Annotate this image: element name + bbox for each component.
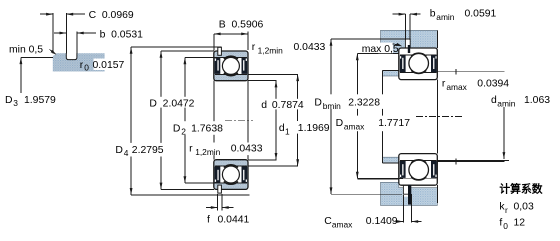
svg-text:4: 4: [124, 148, 129, 158]
svg-text:1.9579: 1.9579: [24, 95, 56, 106]
snap ring in groove (protrudes above OD): [218, 47, 222, 55]
svg-text:C 0.0969: C 0.0969: [89, 10, 134, 21]
raceway arcs above and below ball: [224, 56, 238, 59]
bearing outline (rings) filled steel blue: [214, 160, 248, 190]
right view - top half (mounted bearing): [357, 30, 504, 79]
snap ring in groove (protrudes above OD): [218, 185, 222, 193]
svg-text:0.1409: 0.1409: [366, 216, 398, 227]
dimension C: extension line right (groove left wall): [65, 13, 67, 53]
svg-text:amin: amin: [497, 98, 515, 108]
svg-text:2.2795: 2.2795: [132, 145, 164, 156]
svg-text:0.0591: 0.0591: [465, 9, 497, 20]
housing section block (stippled): [381, 30, 438, 53]
outer ring inner edge line: [215, 56, 247, 58]
dimension b_amin: extension lines to slot: [404, 14, 406, 40]
svg-text:D: D: [314, 98, 322, 109]
dimension C: extension line left (ring face): [52, 13, 54, 53]
cavity between rings: [215, 166, 247, 183]
dimension D_bmin: reference lines at slot bottom: [331, 38, 406, 40]
svg-text:2.3228: 2.3228: [348, 98, 380, 109]
svg-text:计算系数: 计算系数: [499, 181, 542, 195]
svg-text:1,2min: 1,2min: [195, 147, 220, 157]
slot outline: [403, 185, 409, 194]
svg-text:0.0157: 0.0157: [93, 60, 125, 71]
dimension b: extension line (groove right wall): [76, 32, 78, 54]
housing shoulder abutment line (D_amax level): [357, 52, 399, 54]
left seal right view: [400, 55, 406, 72]
label max 0,5 with leader: [378, 43, 393, 54]
label D2 1.7638 on white box: [171, 121, 226, 135]
outer ring inner edge: [400, 54, 437, 56]
dimension D_amax vertical line with arrows: [356, 53, 358, 178]
centerline of main view: [225, 119, 253, 121]
dimension b_amin arrows: [393, 13, 406, 15]
snap ring (black) in right view: [408, 185, 411, 205]
dimension f: extension lines from bottom snap ring: [217, 194, 219, 211]
shaft end face line: [382, 70, 384, 163]
dimension D_bmin vertical line with arrows: [330, 39, 332, 194]
dimension d1: reference lines (shoulder): [248, 73, 298, 75]
svg-text:0.7874: 0.7874: [272, 100, 304, 111]
dimension D: bottom reference line: [161, 188, 214, 190]
dimension D4: bottom reference line: [131, 194, 249, 196]
snap ring slot in housing (white): [403, 185, 409, 197]
svg-text:B 0.5906: B 0.5906: [219, 19, 264, 30]
dimension d_amin: vertical line with down arrow to shaft shoulder line: [503, 107, 505, 159]
svg-text:1.063: 1.063: [524, 95, 550, 106]
main view - top half of bearing section: [214, 47, 248, 80]
ball right view: [409, 54, 429, 74]
slot outline: [405, 39, 410, 48]
bearing side silhouette line right view: [436, 80, 438, 154]
label D_bmin 2.3228 on white box: [312, 94, 384, 109]
inner ring shoulder edge line: [215, 165, 247, 167]
svg-text:D: D: [115, 145, 123, 156]
raceway arcs right view: [411, 177, 426, 180]
ball: [222, 57, 239, 74]
cavity between rings: [215, 57, 247, 74]
raceway arcs above and below ball: [224, 181, 238, 184]
svg-text:r: r: [80, 60, 84, 71]
svg-text:r: r: [505, 205, 508, 215]
svg-text:0: 0: [84, 63, 89, 73]
inner ring shoulder edge line: [215, 73, 247, 75]
svg-text:max 0,5: max 0,5: [362, 44, 399, 55]
svg-text:D: D: [173, 123, 181, 134]
svg-text:1.7638: 1.7638: [191, 123, 223, 134]
dimension B: extension lines: [213, 34, 215, 51]
inner ring shoulder edge: [400, 72, 437, 74]
label D_amax 1.7717 on white box: [334, 116, 416, 132]
bearing outline right view (white): [399, 154, 438, 186]
svg-text:d: d: [279, 123, 285, 134]
housing outer corner edge line right view: [436, 30, 438, 48]
right seal right view: [431, 55, 437, 72]
svg-text:d: d: [491, 95, 497, 106]
svg-text:f: f: [499, 218, 502, 229]
svg-text:min 0,5: min 0,5: [9, 45, 43, 56]
dimension C_amax arrows: [396, 221, 404, 223]
right seal right view: [431, 161, 437, 178]
dimension D vertical line with arrows: [160, 51, 162, 189]
svg-text:1,2min: 1,2min: [258, 45, 283, 55]
dimension D2: top reference line: [185, 56, 216, 58]
main view - bottom half of bearing section (mirrored): [214, 160, 248, 193]
right view - bottom half (mounted bearing, mirrored): [357, 154, 504, 206]
svg-text:0.0433: 0.0433: [231, 144, 263, 155]
svg-text:0.0433: 0.0433: [294, 42, 326, 53]
label r 1,2min 0.0433 (lower) on white box: [187, 143, 265, 156]
ball right view: [409, 160, 429, 180]
dimension D4: top reference line to snap ring: [131, 46, 221, 48]
bearing outline (rings) filled steel blue: [214, 51, 248, 81]
ball: [222, 166, 239, 183]
svg-text:12: 12: [514, 218, 526, 229]
inner ring shoulder edge: [400, 160, 437, 162]
svg-text:amax: amax: [446, 82, 467, 92]
outer ring inner edge line: [215, 182, 247, 184]
right seal (dark shield): [242, 167, 248, 183]
dimension D_amax: bottom reference line: [357, 178, 403, 180]
svg-text:0,03: 0,03: [514, 202, 534, 213]
dimension b arrows and tails: [54, 32, 66, 34]
shaft shoulder line right side with r_amax: [437, 161, 504, 163]
svg-text:d: d: [261, 100, 267, 111]
shaft shoulder line bottom right: [437, 159, 509, 161]
svg-text:D: D: [336, 118, 344, 129]
groove outline in detail view: [66, 53, 77, 59]
svg-text:0: 0: [503, 221, 508, 231]
shaft shoulder line right side with r_amax: [437, 71, 504, 73]
svg-text:1.1969: 1.1969: [298, 123, 330, 134]
left seal right view: [400, 161, 406, 178]
svg-text:amax: amax: [332, 219, 353, 229]
raceway arcs right view: [411, 53, 426, 56]
svg-text:2: 2: [181, 127, 186, 137]
housing section block (stippled): [381, 182, 438, 205]
right seal (dark shield): [242, 58, 248, 74]
shaft washer strip (stippled): [383, 157, 399, 163]
dimension D4 vertical line with arrows: [130, 47, 132, 195]
label d 0.7874 on white box: [259, 99, 307, 110]
dimension D2 vertical line with arrows: [184, 57, 186, 183]
svg-text:f: f: [207, 215, 210, 226]
svg-text:b: b: [430, 9, 436, 20]
housing shoulder abutment line (D_amax level): [357, 179, 399, 181]
snap ring (black) in right view: [408, 45, 410, 53]
label D4 2.2795 on white box: [113, 143, 167, 157]
dimension f arrows: [206, 207, 218, 209]
dimension C arrows and tails: [40, 13, 53, 15]
dimension d vertical line with arrows: [275, 81, 277, 160]
label r0 0.0157 on white box: [94, 59, 130, 71]
centerline right view: [416, 116, 462, 118]
r_amax tick: [455, 69, 457, 75]
svg-text:1: 1: [285, 127, 290, 137]
svg-text:1.7717: 1.7717: [378, 118, 410, 129]
svg-text:0.0441: 0.0441: [218, 215, 250, 226]
dimension D2: bottom reference line: [185, 182, 216, 184]
svg-text:amax: amax: [344, 122, 365, 132]
dimension C_amax: extension lines: [402, 195, 404, 222]
label d1 1.1969 on white box: [277, 121, 330, 134]
dimension d1 vertical line with arrows: [297, 74, 299, 166]
dimension B line with outward arrows: [214, 33, 248, 35]
svg-text:b 0.0531: b 0.0531: [100, 29, 144, 40]
label D 2.0472 on white box: [147, 97, 196, 108]
svg-text:bmin: bmin: [323, 101, 341, 111]
left seal (dark shield): [215, 167, 221, 183]
left seal (dark shield): [215, 58, 221, 74]
svg-text:D 2.0472: D 2.0472: [149, 99, 194, 110]
dimension D3: reference line and vertical line with up arrow: [21, 56, 53, 58]
svg-text:D: D: [5, 95, 13, 106]
shaft washer strip (stippled): [383, 70, 399, 76]
svg-text:0.0394: 0.0394: [477, 78, 509, 89]
outer ring inner edge: [400, 177, 437, 179]
dimension d: reference lines (bore): [248, 80, 277, 82]
svg-text:r: r: [252, 42, 256, 53]
snap ring slot in housing (white): [405, 39, 410, 48]
svg-text:amin: amin: [436, 12, 454, 22]
svg-text:3: 3: [13, 98, 18, 108]
bearing side face silhouette lines between halves: [213, 81, 215, 160]
r_amax tick: [455, 159, 457, 165]
svg-text:r: r: [189, 144, 193, 155]
bearing outline right view (white): [399, 48, 438, 80]
dimension D: top reference line: [161, 50, 214, 52]
detail view: ring with snap-ring groove, steel block: [53, 53, 105, 71]
svg-text:r: r: [442, 78, 446, 89]
